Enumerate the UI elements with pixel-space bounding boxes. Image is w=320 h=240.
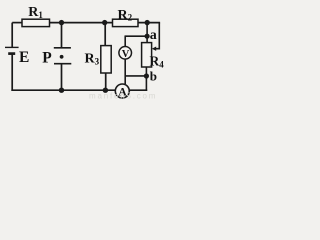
wire voltmeter upper lead — [124, 36, 126, 46]
wire R4 lower lead — [145, 67, 147, 76]
wire voltmeter lower lead down to ammeter — [124, 59, 126, 84]
voltmeter V — [119, 47, 132, 60]
capacitor bottom plate — [54, 63, 71, 65]
svg-text:E: E — [19, 49, 29, 66]
resistor R2 — [113, 19, 139, 26]
svg-text:a: a — [150, 28, 157, 43]
wire top-left segment — [12, 22, 23, 24]
ammeter A — [115, 84, 129, 98]
wire R3 branch upper — [104, 23, 106, 46]
node junction dot top of R3 branch — [102, 20, 107, 25]
svg-text:P: P — [42, 50, 52, 67]
wire left edge lower — [11, 54, 13, 91]
wire from node a to voltmeter branch — [125, 35, 148, 37]
wire R3 branch lower — [105, 73, 107, 90]
svg-text:b: b — [150, 69, 157, 84]
wire node b down to bottom wire — [145, 76, 147, 91]
wire capacitor branch upper — [61, 23, 63, 48]
node junction dot right of R2 — [145, 20, 150, 25]
wire right edge down to rheostat arrow — [155, 23, 160, 49]
node junction dot bottom of capacitor branch — [59, 88, 64, 93]
wire capacitor branch lower — [61, 64, 63, 90]
charged particle P dot — [60, 55, 64, 59]
resistor R3 — [101, 46, 111, 73]
rheostat wiper arrowhead — [152, 47, 156, 51]
wire bottom left segment — [11, 89, 115, 91]
wire bottom right segment — [129, 89, 147, 91]
rheostat R4 — [142, 43, 152, 67]
wire top-right segment — [138, 22, 160, 24]
wire from voltmeter lead to node b — [125, 75, 146, 77]
wire left edge upper — [11, 23, 13, 48]
battery E short plate — [8, 52, 15, 55]
resistor R1 — [22, 19, 50, 26]
svg-text:V: V — [122, 49, 130, 60]
background — [0, 0, 164, 102]
node junction dot top of capacitor branch — [59, 20, 64, 25]
battery E long plate — [5, 46, 19, 48]
wire from R2 right dot down to node a — [146, 23, 148, 43]
svg-text:manfen5.com: manfen5.com — [89, 92, 157, 101]
node b dot — [144, 73, 149, 78]
node junction dot bottom of R3 branch — [103, 88, 108, 93]
capacitor top plate — [54, 47, 71, 49]
wire top middle segment — [50, 22, 114, 24]
node a dot — [145, 34, 150, 39]
